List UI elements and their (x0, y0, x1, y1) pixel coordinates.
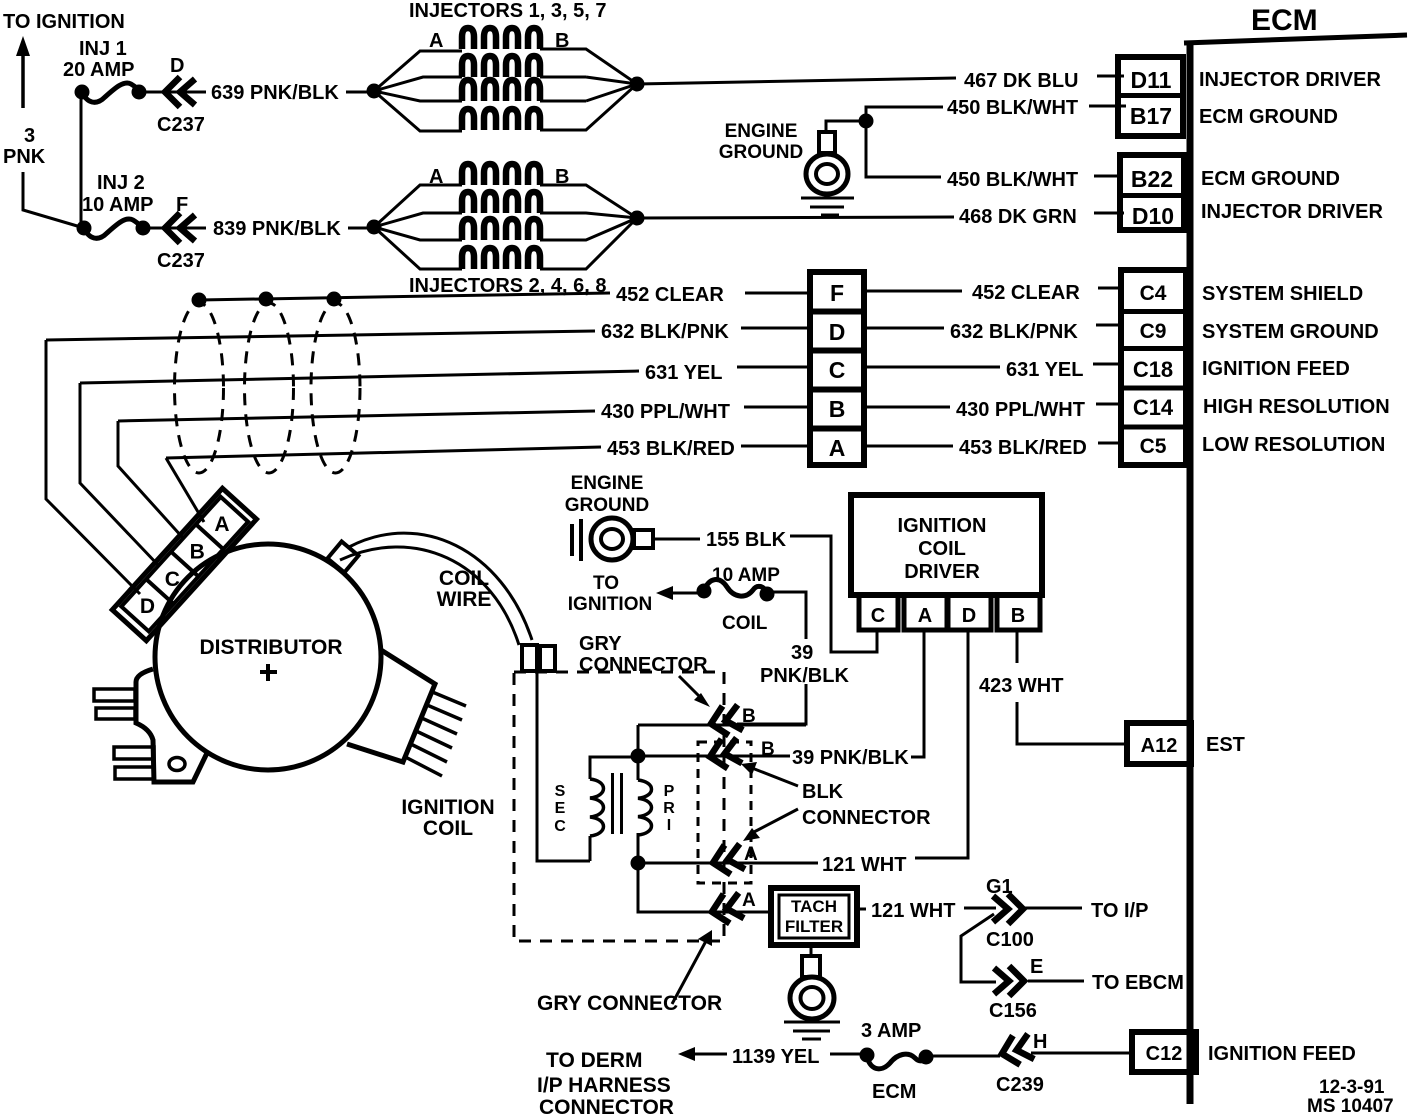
injector coil row4 bank2 (462, 248, 540, 269)
svg-text:632 BLK/PNK: 632 BLK/PNK (950, 321, 1078, 343)
wire 467 to ECM D11 (637, 78, 956, 84)
svg-text:453 BLK/RED: 453 BLK/RED (959, 437, 1087, 459)
svg-text:A12: A12 (1141, 735, 1178, 757)
ground ring 2 (591, 518, 633, 560)
wire to C12 (1031, 1052, 1132, 1055)
distributor pins left upper (94, 689, 135, 701)
tach ground hash (784, 1022, 840, 1039)
svg-text:INJ 1: INJ 1 (79, 38, 127, 60)
wire 452 CLEAR left (shield drain) (199, 293, 610, 300)
svg-text:B: B (1011, 605, 1025, 627)
ECM main vertical line (1187, 42, 1194, 1104)
svg-text:IGNITION FEED: IGNITION FEED (1202, 358, 1350, 380)
svg-text:D: D (962, 605, 976, 627)
injector coil row4 (462, 109, 540, 130)
wire 121 WHT tach to I/P (857, 908, 866, 911)
svg-text:I/P HARNESS: I/P HARNESS (537, 1074, 671, 1097)
wire tach to ground (810, 945, 813, 957)
distributor plus mark (260, 664, 277, 681)
wire 631 YEL right to C18 (865, 366, 1000, 369)
svg-text:E: E (555, 800, 566, 817)
distributor cap terminal (328, 542, 359, 573)
svg-text:121 WHT: 121 WHT (871, 900, 955, 922)
svg-text:GROUND: GROUND (719, 142, 803, 163)
svg-text:C237: C237 (157, 250, 205, 272)
pin C driver (859, 595, 898, 630)
svg-text:EST: EST (1206, 734, 1245, 756)
ground stem (819, 132, 835, 153)
coil tower terminal (522, 645, 537, 671)
coil core (613, 773, 622, 834)
svg-text:C237: C237 (157, 114, 205, 136)
node left bank2 (367, 220, 382, 235)
connector chevron B blk (707, 736, 743, 772)
svg-text:P: P (664, 783, 675, 800)
svg-text:S: S (555, 783, 566, 800)
svg-text:I: I (667, 817, 671, 834)
svg-text:IGNITION: IGNITION (401, 796, 494, 819)
ground ring (806, 154, 848, 194)
wire pri bottom (638, 833, 771, 912)
svg-text:TO DERM: TO DERM (546, 1049, 642, 1072)
svg-text:INJECTORS 1, 3, 5, 7: INJECTORS 1, 3, 5, 7 (409, 0, 607, 22)
wire 468 to ECM D10 (637, 217, 954, 218)
svg-text:TO: TO (593, 573, 619, 594)
svg-text:CONNECTOR: CONNECTOR (579, 654, 708, 676)
wire 39 PNK/BLK from fuse to gry connector B (737, 592, 806, 724)
svg-text:G1: G1 (986, 876, 1013, 898)
svg-text:SYSTEM GROUND: SYSTEM GROUND (1202, 321, 1379, 343)
svg-text:C12: C12 (1146, 1043, 1183, 1065)
svg-text:C4: C4 (1140, 282, 1167, 305)
svg-text:39: 39 (791, 642, 813, 664)
svg-text:C5: C5 (1140, 435, 1167, 458)
svg-text:F: F (830, 280, 844, 306)
wire fan right bank2 (540, 185, 637, 269)
node 450 junction (859, 114, 874, 129)
wire 631 YEL left (80, 371, 639, 383)
svg-text:12-3-91: 12-3-91 (1319, 1077, 1385, 1098)
svg-text:20 AMP: 20 AMP (63, 59, 135, 81)
svg-text:D: D (170, 55, 184, 77)
node coil top junction (631, 749, 646, 764)
injector coil row1 (462, 28, 540, 49)
cable shield ellipses (175, 303, 224, 473)
ground hash (801, 198, 854, 215)
svg-text:B17: B17 (1130, 103, 1172, 129)
svg-text:INJECTOR DRIVER: INJECTOR DRIVER (1201, 201, 1383, 223)
svg-text:COIL: COIL (439, 567, 489, 590)
svg-text:INJECTOR DRIVER: INJECTOR DRIVER (1199, 69, 1381, 91)
svg-text:BLK: BLK (802, 781, 844, 803)
coil primary winding PRI (638, 780, 652, 835)
svg-text:C14: C14 (1133, 395, 1174, 420)
svg-text:D: D (140, 595, 155, 618)
connector block F/D/C/B/A (distributor harness) (810, 272, 864, 465)
svg-text:453 BLK/RED: 453 BLK/RED (607, 438, 735, 460)
svg-text:631 YEL: 631 YEL (645, 362, 722, 384)
pin B driver (997, 595, 1040, 630)
svg-text:1139 YEL: 1139 YEL (732, 1046, 819, 1068)
wire junction B chevrons (638, 725, 806, 756)
svg-text:A: A (829, 435, 846, 461)
wire 453 staircase to pin A (166, 458, 204, 522)
distributor body (155, 544, 381, 770)
svg-text:C: C (554, 818, 566, 835)
wire D driver to 121 WHT (915, 632, 968, 858)
svg-text:A: A (214, 513, 229, 536)
svg-text:ENGINE: ENGINE (571, 473, 644, 494)
svg-text:COIL: COIL (423, 817, 473, 840)
svg-text:A: A (429, 30, 443, 52)
arrow blk to B (752, 768, 798, 786)
ECM top edge (1184, 35, 1407, 43)
svg-text:468 DK GRN: 468 DK GRN (959, 206, 1077, 228)
distributor pins left lower (114, 747, 154, 759)
pin D driver (948, 595, 991, 630)
injector coil row3 (462, 80, 540, 101)
svg-text:R: R (663, 800, 675, 817)
svg-text:E: E (1030, 956, 1043, 978)
wire 639 to injectors 1357 (139, 91, 206, 94)
coil wire double curve (349, 533, 532, 640)
tach filter box (771, 888, 857, 945)
connector chevron B gry (708, 703, 744, 739)
wire to C239 chevron (933, 1055, 1000, 1058)
svg-text:CONNECTOR: CONNECTOR (802, 807, 931, 829)
svg-text:452 CLEAR: 452 CLEAR (972, 282, 1080, 304)
connector chevron A blk (710, 842, 746, 878)
svg-text:LOW RESOLUTION: LOW RESOLUTION (1202, 434, 1385, 456)
wire 430 PPL/WHT left (118, 411, 595, 421)
connector shell C4..C5 (1121, 270, 1186, 465)
arrow gry connector top (679, 676, 702, 699)
node right bank2 (630, 211, 645, 226)
wire branch to C156 (961, 914, 996, 982)
svg-text:GROUND: GROUND (565, 495, 649, 516)
svg-text:D11: D11 (1131, 67, 1172, 93)
svg-text:10 AMP: 10 AMP (82, 194, 154, 216)
svg-text:COIL: COIL (722, 613, 768, 634)
svg-text:DISTRIBUTOR: DISTRIBUTOR (199, 636, 342, 659)
bracket hole (169, 758, 185, 771)
svg-text:B: B (829, 396, 846, 422)
svg-text:C: C (871, 605, 885, 627)
connector shell D11/B17 (1118, 57, 1183, 136)
blk connector dashed box (698, 742, 751, 883)
svg-text:CONNECTOR: CONNECTOR (539, 1096, 674, 1116)
svg-text:C156: C156 (989, 1000, 1037, 1022)
connector chevron E C156 (994, 966, 1024, 996)
svg-text:D10: D10 (1132, 203, 1174, 229)
wire 632 staircase to pin D (46, 340, 140, 594)
wire 632 BLK/PNK left (46, 331, 595, 340)
wire fuse1 to fuse2 tie (80, 92, 83, 228)
svg-text:SYSTEM SHIELD: SYSTEM SHIELD (1202, 283, 1363, 305)
svg-text:839 PNK/BLK: 839 PNK/BLK (213, 218, 341, 240)
svg-text:C100: C100 (986, 929, 1034, 951)
wire fan right bank1 (540, 49, 637, 130)
wire 453 BLK/RED right to C5 (865, 445, 953, 448)
wire 430 PPL/WHT right to C14 (865, 406, 950, 409)
arrow to derm (678, 1047, 695, 1061)
ground bars (572, 519, 581, 561)
svg-text:TO EBCM: TO EBCM (1092, 972, 1184, 994)
svg-text:639 PNK/BLK: 639 PNK/BLK (211, 82, 339, 104)
arrow to ignition (656, 586, 673, 600)
svg-text:DRIVER: DRIVER (904, 561, 980, 583)
svg-text:155 BLK: 155 BLK (706, 529, 787, 551)
svg-text:C9: C9 (1140, 320, 1167, 343)
wire 452 CLEAR right to C4 (865, 290, 962, 293)
svg-text:423 WHT: 423 WHT (979, 675, 1063, 697)
svg-text:452 CLEAR: 452 CLEAR (616, 284, 724, 306)
wire ground to 450 junction (826, 107, 943, 177)
gear teeth (403, 691, 466, 776)
svg-text:A: A (744, 844, 758, 865)
connector chevron G1 C100 (993, 894, 1023, 924)
wire B driver 423 WHT to A12 (1017, 632, 1127, 744)
connector chevron H C239 (998, 1032, 1034, 1068)
coil secondary winding SEC (590, 779, 604, 836)
wire fan left bank1 (374, 51, 462, 131)
svg-text:C: C (829, 357, 846, 383)
wire sec lead to tower (537, 671, 590, 861)
svg-text:39 PNK/BLK: 39 PNK/BLK (792, 747, 909, 769)
svg-text:IGNITION: IGNITION (898, 515, 987, 537)
svg-text:430 PPL/WHT: 430 PPL/WHT (956, 399, 1085, 421)
ignition coil dashed outline (514, 672, 724, 941)
svg-text:632 BLK/PNK: 632 BLK/PNK (601, 321, 729, 343)
wire 453 BLK/RED left (166, 447, 601, 458)
pin A12 EST (1127, 723, 1191, 764)
arrow gry connector bottom (672, 941, 706, 1004)
wire 3 PNK down to fuse INJ2 (23, 172, 84, 228)
svg-text:467 DK BLU: 467 DK BLU (964, 70, 1078, 92)
svg-text:FILTER: FILTER (785, 917, 843, 936)
wire 155 BLK (653, 538, 700, 541)
node left bank1 (367, 84, 382, 99)
arrow blk to A (752, 809, 798, 833)
svg-text:C239: C239 (996, 1074, 1044, 1096)
svg-text:450 BLK/WHT: 450 BLK/WHT (947, 97, 1078, 119)
svg-text:H: H (1033, 1031, 1047, 1053)
svg-text:B: B (742, 706, 756, 727)
injector coil row1 bank2 (462, 164, 540, 185)
wire A driver to 39 PNK/BLK (911, 632, 924, 757)
wire 121 WHT to A chevron (638, 862, 818, 865)
node shield taps (192, 293, 207, 308)
svg-text:A: A (918, 605, 932, 627)
wire 430 staircase to pin B (118, 421, 183, 538)
svg-text:IGNITION: IGNITION (568, 594, 652, 615)
svg-text:TO IGNITION: TO IGNITION (3, 11, 125, 33)
connector C237 chevron F (165, 213, 195, 243)
svg-text:B: B (761, 739, 775, 760)
svg-text:MS 10407: MS 10407 (1307, 1096, 1394, 1116)
wire fan left bank2 (374, 185, 462, 269)
injector coil row2 (462, 56, 540, 77)
svg-text:3 AMP: 3 AMP (861, 1020, 921, 1042)
svg-text:450 BLK/WHT: 450 BLK/WHT (947, 169, 1078, 191)
ignition coil driver box (851, 495, 1042, 595)
svg-text:3: 3 (24, 125, 35, 147)
wire pri top to junction (637, 725, 640, 780)
injector coil row2 bank2 (462, 192, 540, 213)
svg-text:WIRE: WIRE (437, 588, 492, 611)
svg-text:430 PPL/WHT: 430 PPL/WHT (601, 401, 730, 423)
svg-text:631 YEL: 631 YEL (1006, 359, 1083, 381)
svg-text:IGNITION FEED: IGNITION FEED (1208, 1043, 1356, 1065)
pin C12 IGNITION FEED (1132, 1032, 1196, 1072)
distributor drive gear (347, 650, 435, 762)
svg-text:ENGINE: ENGINE (725, 121, 798, 142)
svg-text:GRY CONNECTOR: GRY CONNECTOR (537, 992, 722, 1015)
svg-text:PNK/BLK: PNK/BLK (760, 665, 849, 687)
svg-text:INJ 2: INJ 2 (97, 172, 145, 194)
svg-text:HIGH RESOLUTION: HIGH RESOLUTION (1203, 396, 1390, 418)
node right bank1 (630, 77, 645, 92)
pin A driver (904, 595, 947, 630)
tach ground stem (802, 956, 820, 977)
injector coil row3 bank2 (462, 219, 540, 240)
svg-text:GRY: GRY (579, 633, 622, 655)
svg-text:ECM GROUND: ECM GROUND (1201, 168, 1340, 190)
wire 839 to injectors 2468 (143, 227, 206, 230)
tach ground ring (790, 977, 834, 1019)
connector chevron A gry (709, 891, 745, 927)
svg-text:B: B (190, 540, 205, 563)
svg-text:ECM GROUND: ECM GROUND (1199, 106, 1338, 128)
distributor connector strip A/B/C/D (112, 488, 256, 640)
wire 632 BLK/PNK right to C9 (865, 327, 944, 330)
svg-text:ECM: ECM (872, 1081, 916, 1103)
wire arrow up to ignition (21, 52, 25, 108)
svg-text:C18: C18 (1133, 357, 1173, 382)
node coil bottom junction (631, 856, 646, 871)
svg-text:B22: B22 (1131, 166, 1173, 192)
distributor left bracket (136, 669, 207, 782)
svg-text:TACH: TACH (791, 897, 837, 916)
svg-text:121 WHT: 121 WHT (822, 854, 906, 876)
svg-text:ECM: ECM (1251, 4, 1318, 37)
svg-text:PNK: PNK (3, 146, 46, 168)
svg-text:D: D (829, 319, 846, 345)
connector C237 chevron D (165, 77, 195, 107)
svg-text:TO I/P: TO I/P (1091, 900, 1148, 922)
svg-text:A: A (742, 890, 756, 911)
wire 631 staircase to pin C (80, 383, 159, 566)
svg-text:COIL: COIL (918, 538, 966, 560)
connector shell B22/D10 (1120, 155, 1184, 230)
